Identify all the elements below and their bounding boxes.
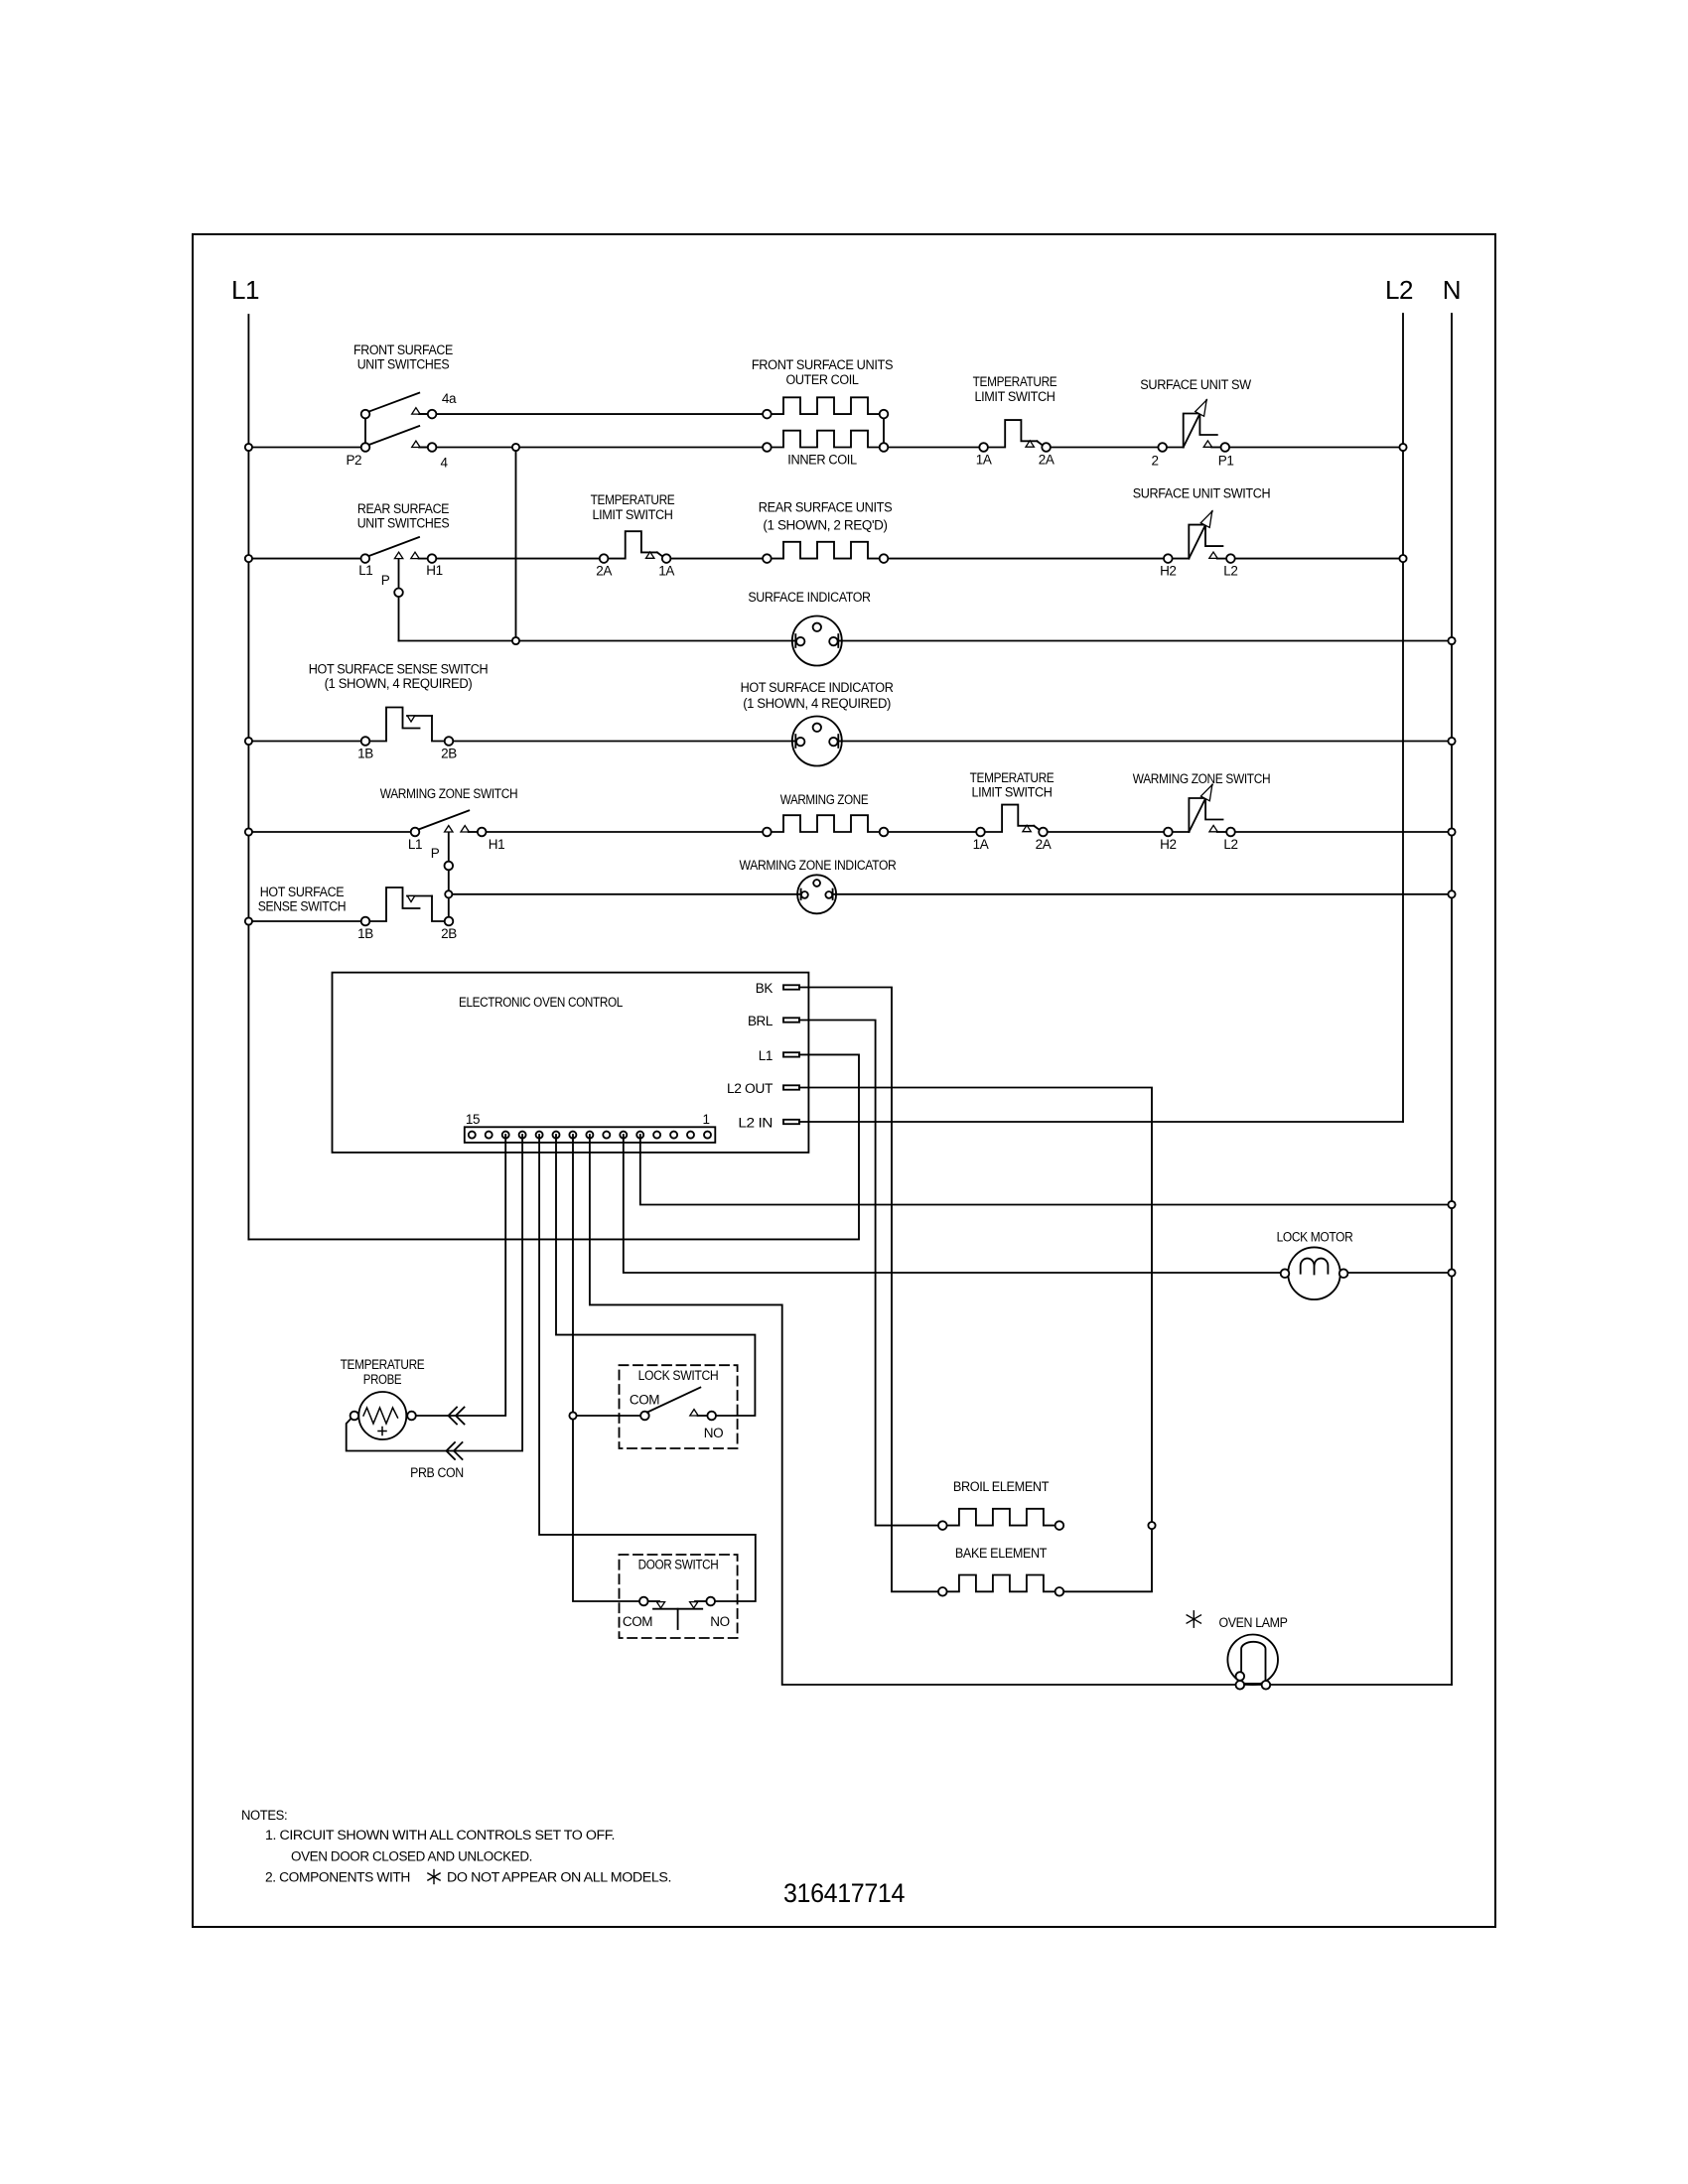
node L1-row4 (245, 828, 252, 835)
svg-text:SENSE SWITCH: SENSE SWITCH (258, 899, 347, 914)
node broil junction (1148, 1522, 1155, 1529)
motor M1 lock motor (1281, 1247, 1348, 1299)
connector PRB CON chevrons bottom (447, 1442, 463, 1459)
door switch contacts COM-NO (639, 1597, 715, 1629)
svg-text:P: P (381, 573, 390, 588)
wire temp limit 1A to rear coil (666, 558, 767, 560)
pin 15 terminal strip (469, 1132, 476, 1139)
wire warming indicator line to N (449, 893, 1452, 895)
svg-text:NO: NO (704, 1426, 723, 1440)
hot surface sense switch 1B-2B (361, 708, 454, 746)
node indicator line (512, 637, 519, 644)
svg-text:OVEN DOOR CLOSED AND UNLOCKED.: OVEN DOOR CLOSED AND UNLOCKED. (291, 1849, 532, 1864)
wire L2 contact to L2 rail (1230, 558, 1403, 560)
node row1 branch (512, 444, 519, 451)
svg-text:SURFACE INDICATOR: SURFACE INDICATOR (748, 590, 871, 605)
hot surface sense switch 2 1B-2B (361, 887, 454, 925)
indicator lamp surface indicator (792, 616, 842, 666)
pin L2 IN EOC (783, 1120, 799, 1124)
svg-text:1A: 1A (973, 837, 989, 852)
svg-text:P2: P2 (346, 453, 361, 468)
svg-text:WARMING ZONE SWITCH: WARMING ZONE SWITCH (380, 786, 518, 801)
svg-text:L1: L1 (759, 1048, 773, 1063)
svg-text:2. COMPONENTS WITH: 2. COMPONENTS WITH (265, 1870, 410, 1885)
svg-text:2A: 2A (1039, 453, 1055, 468)
wire pin11 to probe return (347, 1135, 522, 1450)
wire lock motor to N (1347, 1272, 1452, 1274)
svg-text:LOCK SWITCH: LOCK SWITCH (638, 1368, 719, 1383)
svg-text:BAKE ELEMENT: BAKE ELEMENT (955, 1546, 1047, 1561)
temperature limit switch row4 1A-2A (976, 805, 1048, 837)
warming zone switch L1-H1 (411, 811, 487, 837)
svg-text:DOOR SWITCH: DOOR SWITCH (638, 1558, 719, 1572)
wire junction drop to indicator line (515, 448, 517, 641)
svg-text:TEMPERATURE: TEMPERATURE (973, 374, 1057, 389)
temperature limit switch row1 1A-2A (979, 420, 1051, 452)
node N pin4 (1448, 1201, 1455, 1208)
svg-text:BRL: BRL (748, 1014, 774, 1028)
node N warming zone (1448, 828, 1455, 835)
node L1-row5 (245, 917, 252, 924)
svg-text:2B: 2B (441, 747, 457, 761)
svg-text:H1: H1 (426, 563, 442, 578)
svg-text:OUTER COIL: OUTER COIL (785, 372, 859, 387)
svg-text:P1: P1 (1218, 454, 1234, 469)
svg-text:2: 2 (1151, 454, 1158, 469)
surface unit sw contacts 2-P1 (1158, 400, 1229, 452)
terminal P row2 (394, 589, 403, 598)
svg-text:PRB CON: PRB CON (410, 1465, 464, 1480)
svg-text:HOT SURFACE INDICATOR: HOT SURFACE INDICATOR (741, 680, 895, 695)
heater warming zone coil (767, 815, 884, 832)
svg-text:NO: NO (710, 1614, 729, 1629)
wire N rail vertical (1451, 314, 1453, 1685)
wire BK to bake element (799, 988, 938, 1592)
door switch S2 dashed enclosure (620, 1555, 738, 1638)
wire row3 L1 to sense switch 1B (248, 741, 365, 743)
svg-text:UNIT SWITCHES: UNIT SWITCHES (357, 516, 450, 531)
svg-text:HOT SURFACE SENSE SWITCH: HOT SURFACE SENSE SWITCH (309, 662, 489, 677)
pin BRL EOC (783, 1018, 799, 1022)
svg-text:15: 15 (466, 1112, 480, 1127)
svg-text:L2 OUT: L2 OUT (727, 1081, 773, 1096)
wire temp limit 2A to warming switch H2 (1044, 831, 1169, 833)
svg-text:WARMING ZONE SWITCH: WARMING ZONE SWITCH (1133, 771, 1271, 786)
pin 1 terminal strip (704, 1132, 711, 1139)
resistor RT1 temperature probe (351, 1392, 416, 1439)
svg-text:LOCK MOTOR: LOCK MOTOR (1277, 1230, 1353, 1245)
wire pin10 to door switch NO (539, 1135, 756, 1601)
wire pin4 to N rail (640, 1135, 1452, 1204)
svg-text:TEMPERATURE: TEMPERATURE (341, 1357, 425, 1372)
svg-text:ELECTRONIC OVEN CONTROL: ELECTRONIC OVEN CONTROL (459, 995, 624, 1010)
heater broil element (942, 1509, 1059, 1526)
svg-text:4: 4 (440, 456, 448, 471)
surface unit switch contacts H2-L2 (1164, 511, 1235, 563)
asterisk mark note 2 (428, 1870, 440, 1884)
svg-text:1B: 1B (357, 926, 373, 941)
svg-text:WARMING ZONE: WARMING ZONE (780, 792, 869, 807)
svg-text:BROIL ELEMENT: BROIL ELEMENT (953, 1479, 1049, 1494)
indicator lamp warming zone indicator (797, 875, 836, 913)
svg-text:N: N (1443, 275, 1461, 305)
svg-text:FRONT SURFACE UNITS: FRONT SURFACE UNITS (752, 357, 894, 372)
svg-text:SURFACE UNIT SW: SURFACE UNIT SW (1140, 377, 1251, 392)
wire L2 OUT to elements (799, 1088, 1152, 1592)
node L1-row3 (245, 738, 252, 745)
node L2-row1 (1399, 444, 1406, 451)
electronic oven control box U1 (333, 973, 809, 1153)
wire H1 to warming coil (482, 831, 767, 833)
wire BRL to broil element (799, 1021, 938, 1526)
svg-text:LIMIT SWITCH: LIMIT SWITCH (971, 785, 1052, 800)
wire temp limit 2A to surface unit sw (1047, 447, 1163, 449)
svg-text:PROBE: PROBE (363, 1372, 402, 1387)
lamp oven lamp (1227, 1635, 1278, 1690)
svg-text:FRONT SURFACE: FRONT SURFACE (353, 342, 453, 357)
svg-text:TEMPERATURE: TEMPERATURE (591, 492, 675, 507)
svg-text:HOT SURFACE: HOT SURFACE (260, 885, 345, 899)
lock switch S1 dashed enclosure (620, 1365, 738, 1448)
node N surface indicator (1448, 637, 1455, 644)
pin L2 OUT EOC (783, 1085, 799, 1089)
wire junction to lock COM (577, 1415, 640, 1417)
terminal P row4 (445, 862, 454, 871)
svg-text:L1: L1 (231, 275, 259, 305)
svg-text:LIMIT SWITCH: LIMIT SWITCH (974, 389, 1055, 404)
svg-text:2A: 2A (1036, 837, 1052, 852)
rear surface unit switch L1-H1 (361, 537, 437, 563)
node warming indicator tap (445, 890, 452, 897)
wire surface indicator line to N (399, 640, 1453, 642)
wire H1 to temp limit 2A (432, 558, 604, 560)
node N lock motor (1448, 1269, 1455, 1276)
svg-text:L2 IN: L2 IN (738, 1116, 773, 1131)
svg-text:OVEN LAMP: OVEN LAMP (1218, 1615, 1287, 1630)
svg-text:4a: 4a (442, 391, 457, 406)
wire pin8 to lock/door COM (573, 1135, 639, 1601)
svg-text:1B: 1B (357, 747, 373, 761)
node L1-row1 (245, 444, 252, 451)
wire row5 L1 to sense switch 1B (248, 920, 365, 922)
svg-text:(1 SHOWN, 4 REQUIRED): (1 SHOWN, 4 REQUIRED) (325, 676, 473, 691)
wire 2B to hot surface indicator to N (449, 741, 1452, 743)
svg-text:SURFACE UNIT SWITCH: SURFACE UNIT SWITCH (1133, 486, 1271, 501)
wire row2 L1 to switch (248, 558, 364, 560)
wire L2 IN to L2 rail (799, 1121, 1403, 1123)
svg-text:DO NOT APPEAR ON ALL MODELS.: DO NOT APPEAR ON ALL MODELS. (447, 1870, 671, 1885)
heater inner coil front surface unit (767, 431, 884, 448)
svg-text:TEMPERATURE: TEMPERATURE (970, 770, 1055, 785)
wire row4 L1 to warming switch (248, 831, 415, 833)
svg-text:L2: L2 (1223, 837, 1237, 852)
terminal strip 15..1 (465, 1127, 716, 1143)
pin BK EOC (783, 985, 799, 989)
wire rear coil to surface unit switch H2 (884, 558, 1168, 560)
svg-text:1: 1 (702, 1112, 709, 1127)
svg-text:2B: 2B (441, 926, 457, 941)
svg-text:L2: L2 (1223, 564, 1237, 579)
svg-text:H1: H1 (489, 837, 504, 852)
svg-text:INNER COIL: INNER COIL (787, 453, 857, 468)
svg-text:NOTES:: NOTES: (241, 1808, 287, 1823)
front surface unit switches P2/4/4a (361, 393, 437, 452)
svg-text:H2: H2 (1160, 564, 1176, 579)
wire pin9 to lock switch NO (556, 1135, 755, 1416)
svg-text:2A: 2A (596, 564, 612, 579)
svg-text:UNIT SWITCHES: UNIT SWITCHES (357, 357, 450, 372)
svg-text:P: P (431, 846, 440, 861)
svg-text:H2: H2 (1160, 837, 1176, 852)
svg-text:L1: L1 (358, 563, 372, 578)
node L1-row2 (245, 555, 252, 562)
temperature limit switch row2 2A-1A (600, 531, 671, 563)
node N hot surface indicator (1448, 738, 1455, 745)
svg-text:(1 SHOWN, 4 REQUIRED): (1 SHOWN, 4 REQUIRED) (743, 696, 891, 711)
wire row1 switch to inner coil (419, 447, 767, 449)
svg-text:L1: L1 (408, 837, 422, 852)
wire L2 rail vertical (1402, 314, 1404, 1122)
svg-text:LIMIT SWITCH: LIMIT SWITCH (592, 507, 672, 522)
asterisk mark oven lamp (1187, 1611, 1200, 1627)
pin L1 EOC (783, 1052, 799, 1056)
wire P1 to L2 rail (1225, 447, 1403, 449)
wire warming coil to temp limit 1A (884, 831, 981, 833)
svg-text:COM: COM (630, 1393, 659, 1408)
svg-text:BK: BK (756, 981, 774, 996)
indicator lamp hot surface indicator (792, 717, 842, 766)
wire L1 pin to L1 rail (248, 1054, 859, 1239)
wire 4a branch to outer coil (419, 413, 767, 415)
wire P drop row2 (398, 559, 400, 641)
svg-text:REAR SURFACE: REAR SURFACE (357, 501, 450, 516)
svg-text:REAR SURFACE UNITS: REAR SURFACE UNITS (759, 500, 893, 515)
node L2-row2 (1399, 555, 1406, 562)
heater bake element (942, 1575, 1059, 1592)
wire pin7 to oven lamp line to N (590, 1135, 1452, 1685)
heater outer coil front surface unit (767, 397, 884, 414)
wire row1 L1 to switch P2 (248, 447, 365, 449)
svg-text:316417714: 316417714 (783, 1878, 905, 1908)
svg-text:L2: L2 (1385, 275, 1413, 305)
svg-text:1A: 1A (658, 564, 674, 579)
wire L2 contact to N rail (1231, 831, 1453, 833)
svg-text:1A: 1A (976, 453, 992, 468)
connector PRB CON chevrons top (449, 1408, 465, 1425)
node N warming indicator (1448, 890, 1455, 897)
wire pin5 to lock motor (624, 1135, 1281, 1273)
wire inner coil to temp limit 1A (884, 447, 984, 449)
wire P drop row4 to 2B (448, 832, 450, 921)
node lock switch tap (569, 1412, 576, 1419)
svg-text:(1 SHOWN, 2 REQ'D): (1 SHOWN, 2 REQ'D) (763, 518, 887, 533)
heater rear surface units coil (767, 542, 884, 559)
svg-text:1. CIRCUIT SHOWN WITH ALL CON: 1. CIRCUIT SHOWN WITH ALL CONTROLS SET T… (265, 1828, 615, 1843)
wire L1 rail vertical (247, 315, 249, 1239)
svg-text:WARMING ZONE INDICATOR: WARMING ZONE INDICATOR (740, 858, 897, 873)
lock switch contacts COM-NO (640, 1388, 716, 1421)
warming zone switch contacts H2-L2 (1164, 785, 1235, 837)
wire pin12 to probe top (416, 1135, 505, 1416)
svg-text:COM: COM (623, 1614, 652, 1629)
wire coil right ends join (883, 414, 885, 447)
